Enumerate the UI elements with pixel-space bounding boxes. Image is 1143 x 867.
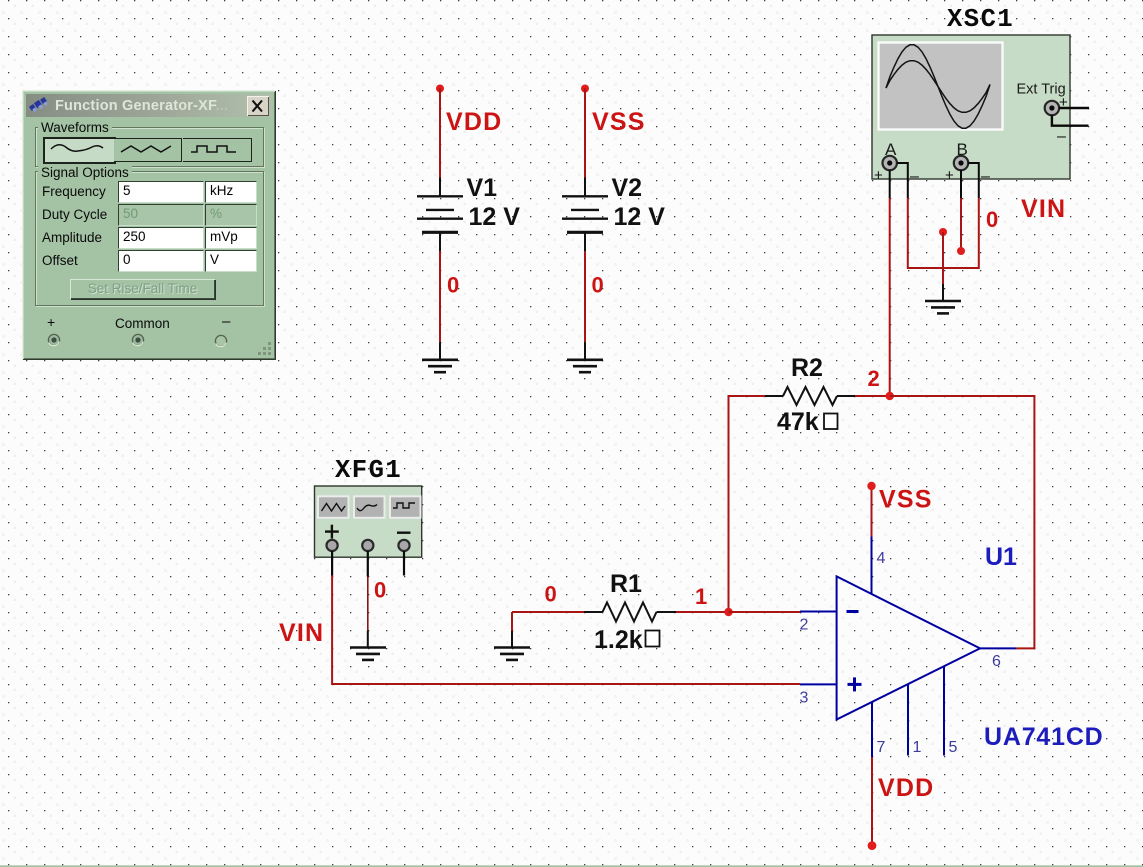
XFG1 terminal common <box>362 540 373 551</box>
ground for V1 <box>422 342 458 372</box>
svg-text:–: – <box>910 168 919 185</box>
radio - (empty) <box>213 333 229 349</box>
svg-text:VSS: VSS <box>879 486 933 514</box>
battery V2 <box>562 178 608 252</box>
frequency row <box>42 184 106 199</box>
svg-text:V2: V2 <box>612 174 643 202</box>
duty cycle row (disabled) <box>42 207 107 222</box>
wire pin 7 to VDD <box>871 757 873 846</box>
terminal A <box>883 156 897 170</box>
XFG1 square button <box>390 496 421 518</box>
XFG1 body <box>315 486 422 557</box>
value 1.2k ohm <box>594 626 660 654</box>
wire B- down red <box>978 198 980 269</box>
svg-text:0: 0 <box>592 273 604 298</box>
wire VSS to pin 4 <box>871 486 873 537</box>
svg-text:U1: U1 <box>985 543 1017 571</box>
XFG1 + sign <box>325 525 339 539</box>
wire XFG + black stub <box>331 551 333 576</box>
ground for scope <box>925 284 961 313</box>
wire Ext Trig - stub <box>1052 115 1089 126</box>
wire node 1 to op-amp pin 2 <box>729 611 801 613</box>
wire VDD to V1 + <box>439 89 441 178</box>
wire A- down red <box>907 198 909 269</box>
pin 4 stub <box>871 537 873 594</box>
op-amp U1 triangle <box>837 576 980 719</box>
resistor R1 <box>584 603 676 622</box>
svg-text:12 V: 12 V <box>614 203 666 231</box>
svg-text:0: 0 <box>545 582 557 607</box>
radio + <box>46 332 62 348</box>
signal options groupbox <box>35 171 264 306</box>
node 1 junction dot <box>724 608 732 616</box>
wire node 2 to output (top + right) <box>890 396 1035 648</box>
svg-text:0: 0 <box>447 273 459 298</box>
ground for XFG1 <box>350 630 386 660</box>
wire V1 - to ground, net 0 <box>439 251 441 342</box>
oscilloscope body <box>872 35 1070 179</box>
op-amp minus input marker <box>847 610 859 613</box>
XFG1 terminal - <box>398 540 409 551</box>
svg-text:VDD: VDD <box>878 774 934 802</box>
node 2 junction dot <box>886 392 894 400</box>
svg-text:1: 1 <box>913 739 922 756</box>
pin 5 stub <box>943 666 945 755</box>
XFG1 - sign <box>397 532 411 534</box>
wire VIN from XFG+ to op-amp pin3 <box>332 576 800 685</box>
wire V2 - to ground, net 0 <box>584 251 586 342</box>
radio common <box>130 332 146 348</box>
wire XFG common to ground red <box>367 577 369 631</box>
wire R1 right to node 1 <box>676 611 729 613</box>
waveforms groupbox label <box>38 120 112 135</box>
wire A+ to node 2 (red) <box>889 198 891 396</box>
dialog title text <box>55 98 228 114</box>
node VSS top junction dot <box>581 85 589 93</box>
waveform square button <box>183 138 252 162</box>
svg-text:12 V: 12 V <box>469 203 521 231</box>
common terminal label <box>115 316 170 331</box>
svg-text:VIN: VIN <box>1021 195 1066 223</box>
node endpoint dot B+ <box>957 247 965 255</box>
resize grip <box>257 341 273 357</box>
svg-text:VIN: VIN <box>279 619 324 647</box>
wire scope ground vertical <box>942 232 944 284</box>
wire XFG - black stub <box>403 551 405 576</box>
minus terminal label <box>222 313 230 330</box>
set rise/fall time button (disabled) <box>70 279 215 299</box>
svg-text:5: 5 <box>949 739 958 756</box>
svg-text:7: 7 <box>877 739 886 756</box>
svg-text:XFG1: XFG1 <box>335 456 402 485</box>
pin 6 stub <box>980 647 1016 649</box>
ground for V2 <box>567 342 603 372</box>
pin 7 stub <box>871 703 873 758</box>
wire A- pigtail black <box>897 163 908 198</box>
offset row <box>42 253 78 268</box>
svg-text:2: 2 <box>800 617 809 634</box>
svg-text:–: – <box>981 168 990 185</box>
node VSS endpoint dot <box>867 482 875 490</box>
svg-text:R1: R1 <box>610 570 642 598</box>
plus terminal label <box>47 314 55 330</box>
svg-text:47k: 47k <box>777 408 819 436</box>
wire B+ stub black <box>960 170 962 198</box>
waveforms groupbox <box>35 127 264 167</box>
wire net0 to R1 <box>512 611 584 613</box>
svg-text:0: 0 <box>986 207 998 232</box>
pin 1 stub <box>907 684 909 755</box>
node VDD top junction dot <box>436 85 444 93</box>
node VDD endpoint dot <box>868 841 877 850</box>
op-amp plus input marker <box>848 677 862 691</box>
wire node1 to R2 (left vertical) <box>729 396 766 612</box>
terminal B <box>954 156 968 170</box>
battery V1 <box>417 178 463 252</box>
wire A+ stub black <box>889 170 891 198</box>
wire B+ down red to endpoint <box>960 198 962 251</box>
svg-text:–: – <box>1057 128 1066 145</box>
wire bracket bottom <box>908 267 979 269</box>
svg-text:2: 2 <box>868 366 880 391</box>
resistor R2 <box>765 387 855 405</box>
svg-text:XSC1: XSC1 <box>947 5 1014 34</box>
svg-text:+: + <box>874 167 883 184</box>
Function Generator dialog <box>22 90 276 360</box>
signal options label <box>38 165 132 180</box>
svg-text:R2: R2 <box>791 354 823 382</box>
scope trace curves <box>886 45 990 128</box>
wire Ext Trig + stub <box>1059 107 1089 109</box>
svg-text:+: + <box>945 167 954 184</box>
svg-text:V1: V1 <box>467 174 498 202</box>
svg-text:3: 3 <box>800 690 809 707</box>
node junction dot scope ground <box>939 228 947 236</box>
close button <box>247 96 269 116</box>
svg-text:UA741CD: UA741CD <box>984 723 1104 751</box>
svg-text:1: 1 <box>695 584 707 609</box>
Ext Trig terminal <box>1045 101 1059 115</box>
waveform sine button (selected) <box>43 137 116 164</box>
value 47k ohm <box>777 408 838 436</box>
wire down to ground (R1) <box>511 612 513 631</box>
wire VSS to V2 + <box>584 89 586 178</box>
svg-text:VDD: VDD <box>446 108 502 136</box>
dialog icon <box>29 97 49 114</box>
svg-text:0: 0 <box>374 578 386 603</box>
pin 3 stub <box>800 683 837 685</box>
amplitude row <box>42 230 102 245</box>
waveform triangle button <box>114 138 182 162</box>
svg-text:1.2k: 1.2k <box>594 626 643 654</box>
bottom window edge strip <box>0 865 1143 867</box>
pin 2 stub <box>800 611 837 613</box>
wire XFG common black stub <box>367 551 369 577</box>
wire R2 right to node 2 <box>855 395 890 397</box>
wire B- pigtail black <box>968 163 979 198</box>
svg-text:6: 6 <box>992 653 1001 670</box>
ground for R1 <box>494 631 530 660</box>
XFG1 terminal + <box>327 540 338 551</box>
XFG1 sine button <box>354 496 385 518</box>
dialog title bar <box>26 94 272 117</box>
svg-text:4: 4 <box>877 550 886 567</box>
XFG1 triangle button <box>318 496 349 518</box>
svg-text:VSS: VSS <box>592 108 646 136</box>
